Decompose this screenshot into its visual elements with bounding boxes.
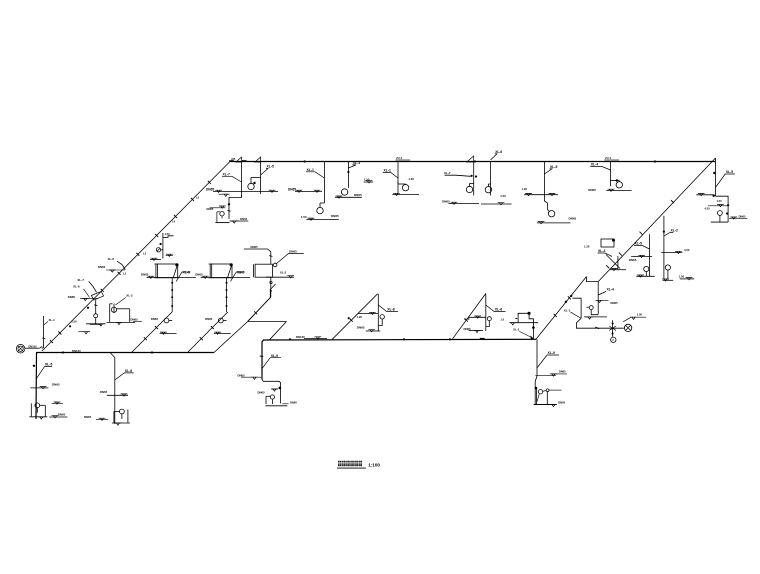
pipe: jog diagonal left — [214, 322, 248, 353]
hydrant riser XL-5c cluster — [629, 234, 655, 277]
hydrant riser XL-1 cluster — [288, 162, 339, 221]
svg-text:DN65: DN65 — [195, 273, 203, 277]
svg-text:XL-4: XL-4 — [591, 163, 598, 167]
vent flag 1 — [236, 157, 242, 162]
mid hydrant box XL-6 riser — [141, 263, 196, 334]
svg-text:ZJ-1: ZJ-1 — [396, 156, 403, 160]
label on right main — [296, 335, 327, 339]
svg-text:DN65: DN65 — [588, 188, 596, 192]
svg-text:1.20: 1.20 — [584, 244, 590, 248]
svg-text:DN65: DN65 — [240, 217, 247, 221]
pump connection west — [16, 344, 42, 353]
svg-text:DN65: DN65 — [52, 383, 60, 387]
svg-text:DN65: DN65 — [611, 301, 619, 305]
svg-text:DN65: DN65 — [559, 370, 566, 374]
svg-text:XL-6: XL-6 — [495, 308, 502, 312]
svg-text:DN65: DN65 — [98, 265, 106, 269]
label XL-5 leader — [261, 169, 268, 176]
pipe: right 45-deg diagonal lower — [536, 277, 587, 340]
svg-text:DN65: DN65 — [290, 401, 297, 405]
svg-text:DN65: DN65 — [151, 317, 159, 321]
svg-text:DN65: DN65 — [206, 187, 214, 191]
svg-text:DN65: DN65 — [251, 245, 259, 249]
svg-text:XL-5: XL-5 — [267, 165, 274, 169]
svg-text:ZJ-1: ZJ-1 — [605, 156, 612, 160]
hydrant riser XL-5b cluster — [522, 162, 577, 224]
hydrant riser corner cluster — [696, 158, 747, 222]
pipe: riser diagonal to XL-6 — [131, 312, 172, 353]
svg-text:DN65: DN65 — [629, 258, 637, 262]
pipe: jog diagonal right — [270, 322, 287, 340]
bottom drop hydrant XL-6 left mid — [84, 353, 134, 426]
svg-text:DN65: DN65 — [288, 187, 296, 191]
ticks on diagonals — [50, 181, 674, 343]
bottom drop hydrant XL-9 mid — [238, 354, 298, 406]
pipe: right 45-deg diagonal upper — [598, 158, 715, 282]
svg-text:DN65: DN65 — [141, 273, 149, 277]
labels along left diagonal — [123, 196, 200, 276]
svg-text:1.50: 1.50 — [165, 232, 171, 236]
svg-text:DN65: DN65 — [558, 401, 565, 405]
title: fire hydrant system diagram — [337, 461, 380, 468]
svg-text:XL-5: XL-5 — [45, 363, 52, 367]
svg-text:XL-9: XL-9 — [271, 354, 278, 358]
junction dots on mains — [62, 160, 656, 353]
svg-text:XL-6: XL-6 — [125, 369, 132, 373]
svg-text:DN100: DN100 — [29, 345, 38, 349]
bottom drop hydrant XL-9 right — [534, 339, 567, 406]
riser stub above west corner — [42, 316, 90, 348]
iso hydrant box L2 — [68, 278, 106, 326]
pipe: riser diagonal shelf to XL-2 box — [248, 284, 276, 322]
vent flag 3 — [467, 156, 474, 162]
hydrant riser XL-7 top cluster — [206, 157, 278, 197]
pipe: riser diagonal to XL-2 mid — [187, 312, 228, 353]
svg-text:1.50: 1.50 — [679, 274, 685, 278]
pipe: left bottom main — [36, 352, 214, 354]
svg-text:XL-1: XL-1 — [513, 328, 520, 332]
hydrant box cluster R2 — [584, 239, 626, 271]
svg-text:XL-1: XL-1 — [49, 318, 56, 322]
hydrant cluster L3 — [107, 293, 142, 324]
pipe size dash on right main — [480, 338, 485, 340]
hydrant riser XL-1b cluster — [383, 162, 419, 196]
svg-text:DN100: DN100 — [72, 349, 81, 353]
vent flag 2 — [255, 157, 261, 162]
pipe: feed line to box XL-2 — [244, 249, 271, 264]
svg-text:1.50: 1.50 — [301, 215, 307, 219]
vent circle cluster L5 — [150, 232, 174, 261]
svg-text:1.20: 1.20 — [522, 187, 528, 191]
svg-text:DN65: DN65 — [354, 193, 362, 197]
svg-text:1.50: 1.50 — [71, 319, 77, 323]
svg-text:1.20: 1.20 — [357, 315, 363, 319]
svg-text:DN65: DN65 — [68, 295, 76, 299]
hydrant riser XL-3 cluster — [335, 161, 373, 198]
svg-text:XL-8: XL-8 — [387, 308, 394, 312]
svg-text:4.50: 4.50 — [705, 207, 711, 211]
label ZJ-1 on main — [396, 156, 411, 160]
svg-text:XL-3: XL-3 — [353, 161, 360, 165]
triangle riser XL-8 — [332, 294, 398, 340]
svg-text:DN65: DN65 — [84, 415, 92, 419]
svg-text:XL-5: XL-5 — [550, 165, 557, 169]
svg-text:DN65: DN65 — [238, 373, 246, 377]
label XL-7 right leader — [444, 171, 471, 176]
svg-text:XL-2: XL-2 — [280, 271, 287, 275]
svg-text:DN65: DN65 — [442, 199, 450, 203]
svg-text:XL-6: XL-6 — [183, 270, 190, 274]
svg-text:XL-6: XL-6 — [495, 150, 502, 154]
svg-text:XL-7: XL-7 — [223, 172, 230, 176]
mid hydrant box XL-2b riser — [240, 249, 304, 321]
svg-text:XL-7: XL-7 — [444, 171, 451, 175]
svg-text:DN65: DN65 — [357, 325, 365, 329]
hydrant riser XL-2 right cluster — [661, 216, 694, 281]
svg-text:DN65: DN65 — [569, 217, 577, 221]
svg-text:DN65: DN65 — [739, 215, 746, 219]
svg-text:DN65: DN65 — [205, 317, 213, 321]
bottom drop hydrant XL-5 far left — [29, 363, 67, 419]
mid hydrant box XL-2 riser — [195, 263, 250, 334]
hydrant riser XL-b double cluster — [442, 150, 512, 205]
svg-text:1.50: 1.50 — [637, 313, 643, 317]
label ZJ-1b on main — [605, 156, 620, 160]
svg-text:XL-2: XL-2 — [126, 293, 133, 297]
svg-text:XL-1: XL-1 — [564, 308, 571, 312]
svg-text:XL-6: XL-6 — [73, 285, 80, 289]
pipe: U1 corner drop — [35, 353, 38, 420]
svg-text:DN65: DN65 — [100, 390, 108, 394]
hydrant riser XL-4b cluster — [584, 282, 618, 320]
svg-text:1.60: 1.60 — [408, 177, 414, 181]
svg-text:XL-4: XL-4 — [607, 287, 614, 291]
svg-text:1.50: 1.50 — [717, 199, 723, 203]
svg-text:XL-4: XL-4 — [598, 249, 605, 253]
svg-text:XL-1: XL-1 — [307, 168, 314, 172]
svg-text:DN65: DN65 — [464, 327, 472, 331]
svg-text:DN65: DN65 — [258, 391, 266, 395]
floor mark cluster L6 — [98, 257, 125, 272]
pipe: right diagonal jog — [587, 277, 599, 282]
pipe: right bottom main — [262, 339, 536, 379]
triangle riser XL-6b — [452, 294, 505, 340]
svg-text:4.50: 4.50 — [684, 248, 690, 252]
svg-text:1:100: 1:100 — [368, 462, 380, 467]
svg-text:XL-1: XL-1 — [384, 169, 391, 173]
svg-text:XL-5: XL-5 — [635, 241, 642, 245]
pipe: top main DN100 — [230, 161, 716, 163]
hydrant riser XL-4 cluster — [588, 162, 631, 193]
svg-text:XL-6: XL-6 — [108, 257, 115, 261]
second floor hydrant below XL-7 — [207, 194, 249, 223]
hydrant stub M1 — [501, 312, 539, 340]
marks cluster L1 — [71, 319, 101, 324]
svg-text:DN65: DN65 — [207, 207, 214, 211]
pipe: left 45-deg riser diagonal — [42, 162, 230, 352]
pipe: shelf horizontal — [248, 321, 287, 323]
svg-text:DN100: DN100 — [296, 335, 305, 339]
svg-text:XL-7: XL-7 — [77, 278, 84, 282]
svg-text:XL-2: XL-2 — [671, 229, 678, 233]
svg-text:1.50: 1.50 — [500, 194, 506, 198]
svg-text:DN65: DN65 — [331, 214, 339, 218]
svg-text:J25: J25 — [231, 157, 236, 161]
svg-text:DN65: DN65 — [289, 249, 297, 253]
svg-text:1.0: 1.0 — [501, 318, 505, 322]
svg-text:1.50: 1.50 — [364, 178, 370, 182]
svg-text:XL-5: XL-5 — [726, 170, 733, 174]
svg-text:XL-9: XL-9 — [548, 351, 555, 355]
siamese pump connection assembly — [564, 295, 646, 343]
svg-text:DN65: DN65 — [58, 413, 66, 417]
